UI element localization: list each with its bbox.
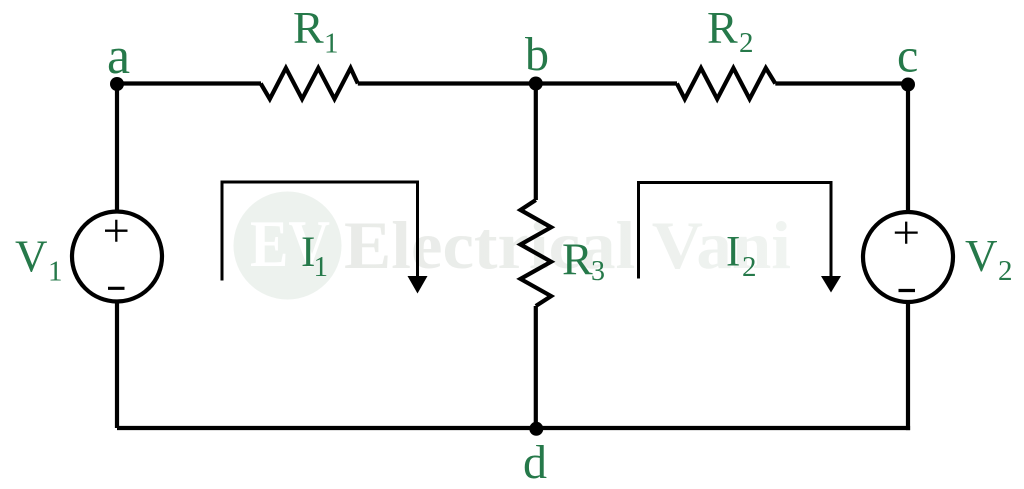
wire node b to R2 (536, 81, 677, 85)
wire node b down to R3 (534, 84, 538, 201)
node b junction dot (529, 77, 543, 91)
label R3 (562, 234, 605, 288)
svg-text:V: V (15, 232, 48, 282)
svg-text:d: d (523, 436, 547, 489)
voltage source V1 (72, 212, 162, 302)
svg-text:R: R (293, 2, 324, 53)
svg-text:I: I (726, 229, 740, 276)
resistor R3 (521, 200, 552, 306)
svg-text:2: 2 (742, 251, 757, 283)
svg-text:c: c (897, 30, 918, 83)
mesh current I2 loop arrow (639, 183, 842, 293)
resistor R1 (261, 68, 358, 99)
wire R3 to node d (534, 306, 538, 428)
label I1 (301, 229, 328, 283)
wire V1 to bottom (115, 302, 119, 429)
svg-text:3: 3 (591, 256, 605, 287)
svg-text:a: a (107, 28, 130, 85)
label R1 (293, 2, 339, 60)
wire node a down to V1 (115, 84, 119, 213)
svg-text:R: R (562, 234, 593, 285)
label I2 (726, 229, 757, 284)
svg-text:R: R (707, 2, 738, 53)
wire node c down to V2 (906, 84, 910, 213)
wire R1 to node b (358, 81, 536, 85)
svg-text:V: V (965, 231, 998, 281)
wire node a to R1 (117, 81, 261, 85)
label V2 (965, 231, 1013, 287)
svg-text:2: 2 (998, 255, 1013, 287)
node d junction dot (529, 422, 543, 436)
svg-text:1: 1 (314, 251, 329, 283)
voltage source V2 (863, 212, 953, 302)
svg-text:1: 1 (324, 28, 339, 60)
svg-text:1: 1 (48, 256, 63, 288)
mesh current I1 loop arrow (222, 182, 428, 294)
bottom wire left (V1 to node d) (117, 426, 536, 430)
svg-text:2: 2 (739, 27, 754, 59)
svg-text:b: b (525, 28, 549, 81)
node c junction dot (901, 78, 915, 92)
resistor R2 (677, 68, 775, 99)
label R2 (707, 2, 754, 59)
wire R2 to node c (775, 81, 908, 85)
node a junction dot (110, 77, 124, 91)
wire V2 to bottom (906, 302, 910, 430)
label V1 (15, 232, 63, 288)
bottom wire right (node d to V2) (536, 426, 910, 430)
